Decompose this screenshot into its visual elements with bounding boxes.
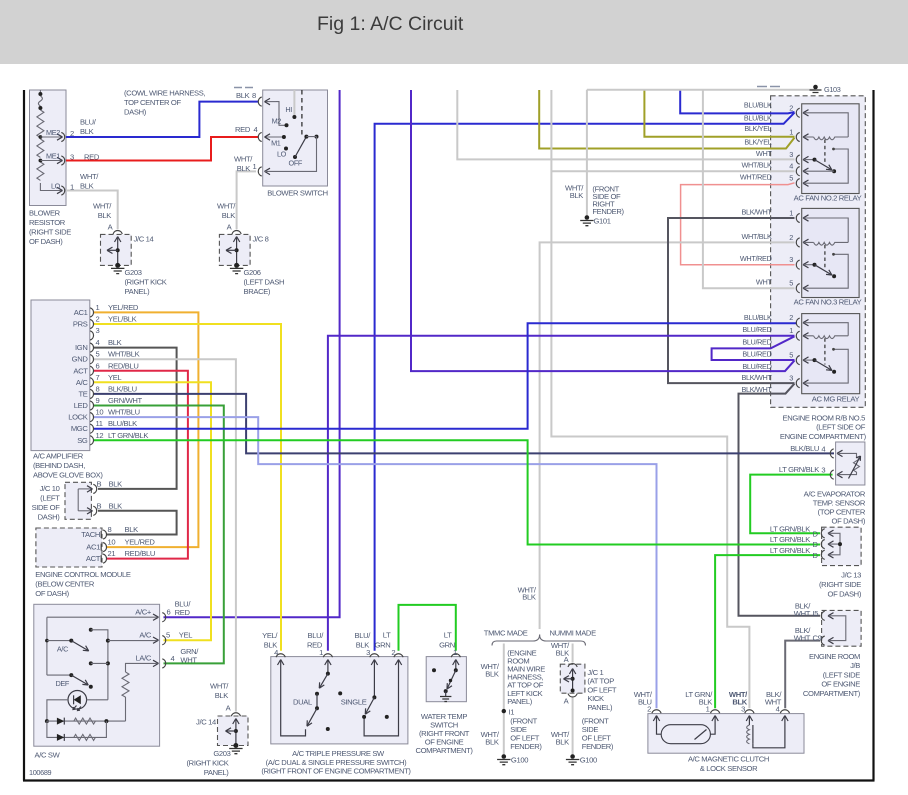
svg-text:YEL: YEL (179, 631, 192, 640)
wire BLU/BLK blower resistor ME2 to blower switch pin 8 (66, 102, 258, 137)
svg-text:PANEL): PANEL) (125, 287, 151, 296)
svg-text:ENGINE ROOM R/B NO.5: ENGINE ROOM R/B NO.5 (783, 413, 866, 422)
J/C 10 internal link (77, 489, 79, 511)
wire BLU/BLK amplifier pin 11 to AC MG relay pin 2 (93, 323, 797, 429)
svg-text:11: 11 (96, 419, 103, 428)
AC fan no.3 relay pin 1 (796, 213, 799, 222)
wire BLU/BLK top feed to AC fan no.2 relay pin 2 (680, 90, 794, 113)
svg-text:OF DASH): OF DASH) (828, 590, 862, 599)
svg-text:TACH: TACH (81, 530, 100, 539)
svg-text:BLU/: BLU/ (355, 631, 372, 640)
J/C 13 pin D1 (821, 529, 824, 538)
engine control module dashed box (36, 528, 102, 567)
svg-text:PANEL): PANEL) (507, 697, 533, 706)
J/C 13 dashed box (822, 527, 862, 565)
A/C amplifier pin 10 LOCK (90, 413, 93, 422)
water temp switch internal ground (440, 697, 451, 702)
svg-text:YEL/: YEL/ (262, 631, 278, 640)
ground G103 clipped at frame top (813, 85, 818, 90)
svg-text:(LEFT: (LEFT (40, 494, 60, 503)
A/C amplifier pin 5 GND (90, 355, 93, 364)
wire WHT/RED relay no.2 pin 5 to relay no.3 pin 3 (681, 183, 795, 265)
svg-text:2: 2 (789, 313, 793, 322)
water temp switch contacts (432, 668, 436, 672)
svg-text:WHT/BLU: WHT/BLU (108, 408, 140, 417)
svg-text:TOP CENTER OF: TOP CENTER OF (124, 98, 181, 107)
svg-text:A/C+: A/C+ (135, 608, 152, 617)
A/C evaporator temp sensor box (836, 442, 865, 485)
J/C 14 lower dashed box (218, 716, 249, 746)
svg-text:OF ENGINE: OF ENGINE (821, 680, 860, 689)
evaporator sensor pin 4 (830, 449, 833, 458)
J/C 1 dashed box (560, 664, 585, 693)
ground G203 lower (229, 749, 242, 754)
svg-text:BLK/WHT: BLK/WHT (742, 385, 773, 394)
svg-text:2: 2 (70, 129, 74, 138)
wire BLU/RED A/C SW pin 6 up to frame top (164, 90, 340, 617)
svg-text:3: 3 (821, 466, 825, 475)
svg-text:LT GRN/BLK: LT GRN/BLK (108, 431, 148, 440)
svg-text:5: 5 (789, 351, 793, 360)
svg-text:BLU/BLK: BLU/BLK (744, 101, 772, 110)
svg-text:BLU/RED: BLU/RED (742, 325, 771, 334)
svg-text:10: 10 (96, 408, 104, 417)
svg-text:YEL/BLK: YEL/BLK (108, 315, 137, 324)
blower switch pin 1 (258, 167, 261, 176)
svg-text:1: 1 (96, 303, 100, 312)
wire BLK J/C 10 B to ECM TACH (98, 511, 177, 535)
svg-text:SINGLE: SINGLE (341, 698, 367, 707)
A/C amplifier pin 6 ACT (90, 366, 93, 375)
wire WHT/BLK ground net top run to G103 (587, 89, 815, 91)
A/C SW internal A/C+ line (47, 617, 158, 675)
svg-text:OF DASH): OF DASH) (35, 589, 69, 598)
blower resistor pin LO (57, 187, 63, 193)
AC fan no.2 relay pin 5 (796, 179, 799, 188)
svg-text:J/C 14: J/C 14 (196, 718, 216, 727)
svg-text:J/C 1: J/C 1 (587, 668, 603, 677)
svg-text:BLK: BLK (80, 127, 94, 136)
svg-text:1: 1 (789, 128, 793, 137)
water temp switch box (426, 657, 466, 702)
svg-text:ABOVE GLOVE BOX): ABOVE GLOVE BOX) (33, 471, 103, 480)
svg-text:(A/C DUAL & SINGLE PRESSURE SW: (A/C DUAL & SINGLE PRESSURE SWITCH) (266, 758, 407, 767)
wire WHT/BLU amplifier pin 10 to clutch pin 2 (93, 417, 657, 708)
svg-text:YEL: YEL (108, 373, 121, 382)
wire WHT/BLK TMMC branch to G100 (503, 644, 505, 756)
svg-text:ACT: ACT (86, 554, 101, 563)
AC fan no.3 relay box (802, 208, 859, 297)
svg-text:LT GRN/BLK: LT GRN/BLK (779, 465, 819, 474)
clutch pin 4 cap (780, 710, 789, 713)
AC MG relay internals (804, 323, 849, 336)
AC fan no.3 relay pin 2 (796, 238, 799, 247)
svg-text:BLU/RED: BLU/RED (742, 362, 771, 371)
svg-text:(RIGHT KICK: (RIGHT KICK (187, 759, 229, 768)
wire WHT/BLK amplifier pin 5 to J/C 14 lower (93, 359, 236, 711)
AC fan no.3 relay pin 5 (796, 284, 799, 293)
svg-text:AC FAN NO.2 RELAY: AC FAN NO.2 RELAY (794, 194, 862, 203)
AC fan no.2 relay internals (804, 113, 849, 137)
svg-text:BLK: BLK (485, 669, 499, 678)
svg-text:WHT/RED: WHT/RED (740, 172, 772, 181)
svg-text:OF DASH): OF DASH) (29, 237, 63, 246)
svg-text:I1: I1 (509, 708, 515, 717)
svg-text:3: 3 (70, 153, 74, 162)
svg-text:OF DASH): OF DASH) (832, 516, 866, 525)
svg-text:BLK: BLK (215, 691, 229, 700)
wire WHT/BLK NUMMI branch to J/C 1 (572, 644, 574, 663)
remnant label above relay pin 2 (757, 86, 780, 88)
wire WHT/BLK relay no.3 pin 2 down to G100 split (540, 242, 795, 629)
svg-text:WHT/: WHT/ (80, 172, 99, 181)
svg-text:LO: LO (51, 182, 61, 191)
A/C amplifier pin 12 SG (90, 436, 93, 445)
AC MG relay pin 2 (796, 318, 799, 327)
svg-text:BLK: BLK (732, 698, 747, 707)
svg-text:WHT: WHT (756, 149, 772, 158)
svg-text:WHT/RED: WHT/RED (740, 254, 772, 263)
svg-text:BLK: BLK (556, 737, 570, 746)
svg-text:LOCK: LOCK (68, 413, 88, 422)
A/C SW LA/C resistor (122, 663, 158, 721)
J/C 14 upper connector (113, 230, 122, 233)
svg-text:LT GRN/BLK: LT GRN/BLK (770, 546, 810, 555)
wire WHT/BLK main vertical to clutch pin 3 (551, 90, 749, 708)
svg-text:BLU/BLK: BLU/BLK (108, 419, 137, 428)
svg-text:A/C: A/C (139, 631, 151, 640)
wire WHT/BLK J/C 1 to G100 (572, 698, 574, 756)
svg-text:1: 1 (789, 326, 793, 335)
svg-text:AC1: AC1 (86, 543, 100, 552)
J/C 13 pin D3 (821, 550, 824, 559)
wire BLK/YEL second feed to AC fan no.2 relay pin 1 (539, 90, 794, 149)
J/C 10 dashed box (65, 482, 91, 519)
clutch pin 2 cap (652, 710, 661, 713)
svg-text:4: 4 (821, 444, 825, 453)
svg-text:NUMMI MADE: NUMMI MADE (550, 629, 597, 638)
svg-text:LA/C: LA/C (136, 654, 152, 663)
svg-text:D: D (813, 529, 819, 538)
AC fan no.2 relay box (802, 104, 859, 194)
J/C 14 lower connector (231, 713, 240, 716)
J/C 10 pin B lower (93, 506, 96, 515)
wire LT GRN pressure switch pin 2 to water temp switch pin 1 (399, 605, 456, 651)
svg-text:5: 5 (166, 631, 170, 640)
ECM pin ACT (103, 554, 106, 563)
svg-text:2: 2 (789, 104, 793, 113)
A/C SW switch DEF (47, 674, 71, 676)
svg-text:1: 1 (789, 209, 793, 218)
svg-text:(LEFT SIDE: (LEFT SIDE (823, 670, 861, 679)
clutch pin 3 cap (745, 710, 754, 713)
svg-text:GRN: GRN (375, 640, 391, 649)
svg-text:12: 12 (96, 431, 104, 440)
svg-text:BLK: BLK (570, 191, 584, 200)
svg-text:G100: G100 (511, 756, 528, 765)
A/C SW box (34, 604, 160, 746)
svg-text:TEMP. SENSOR: TEMP. SENSOR (813, 498, 866, 507)
wire RED blower resistor ME1 to blower switch pin 4 (66, 137, 258, 161)
evaporator sensor pin 3 (830, 470, 833, 479)
svg-text:(COWL WIRE HARNESS,: (COWL WIRE HARNESS, (124, 89, 205, 98)
engine room J/B dashed box (822, 610, 862, 646)
svg-text:3: 3 (366, 648, 370, 657)
A/C SW diode resistor row 2 (47, 721, 107, 737)
wire WHT/BLK blower resistor LO to J/C 14 (66, 191, 118, 230)
svg-text:A/C EVAPORATOR: A/C EVAPORATOR (804, 489, 866, 498)
A/C SW switch A/C (45, 639, 49, 643)
svg-text:TMMC MADE: TMMC MADE (484, 629, 528, 638)
svg-text:10: 10 (108, 538, 116, 547)
node I1 (502, 709, 506, 713)
svg-text:LT: LT (444, 631, 452, 640)
svg-text:7: 7 (96, 373, 100, 382)
blower resistor tap ME2 (40, 136, 62, 138)
svg-text:WHT/: WHT/ (210, 682, 229, 691)
svg-text:IGN: IGN (75, 343, 87, 352)
wire WHT/BLK blower switch pin 1 to J/C 8 (237, 171, 256, 229)
wire BLK/WHT AC MG relay pin 3 to engine room J/B I5 (739, 384, 821, 616)
AC fan no.3 relay pin 3 (796, 260, 799, 269)
svg-text:4: 4 (274, 648, 278, 657)
svg-text:ENGINE COMPARTMENT): ENGINE COMPARTMENT) (780, 432, 867, 441)
svg-text:LT: LT (383, 631, 391, 640)
svg-text:LED: LED (74, 401, 89, 410)
svg-text:(RIGHT FRONT OF ENGINE COMPART: (RIGHT FRONT OF ENGINE COMPARTMENT) (261, 767, 411, 776)
svg-text:BLK: BLK (237, 164, 251, 173)
svg-text:AC MG RELAY: AC MG RELAY (812, 394, 860, 403)
engine room J/B pin C9 (821, 636, 824, 645)
svg-text:2: 2 (647, 705, 651, 714)
clutch oval symbol (661, 725, 710, 744)
J/C 1 connector (568, 664, 577, 667)
svg-text:3: 3 (789, 255, 793, 264)
svg-text:G206: G206 (244, 268, 261, 277)
svg-text:(RIGHT KICK: (RIGHT KICK (125, 278, 167, 287)
ground G101 (585, 215, 590, 220)
svg-text:WHT/BLK: WHT/BLK (742, 161, 772, 170)
svg-text:AC FAN NO.3 RELAY: AC FAN NO.3 RELAY (794, 298, 862, 307)
svg-text:LT GRN/BLK: LT GRN/BLK (770, 524, 810, 533)
svg-text:SIDE OF: SIDE OF (32, 503, 61, 512)
svg-text:AC1: AC1 (74, 308, 88, 317)
svg-text:J/C 10: J/C 10 (40, 484, 60, 493)
svg-text:BLK/BLU: BLK/BLU (108, 384, 137, 393)
pressure switch pin 3 cap (370, 654, 379, 657)
svg-text:PRS: PRS (73, 320, 88, 329)
svg-text:B: B (97, 501, 102, 510)
engine room J/B internal bus (829, 616, 846, 641)
AC MG relay pin 3 (796, 379, 799, 388)
AC fan no.2 relay pin 2 (796, 108, 799, 117)
svg-text:4: 4 (254, 125, 258, 134)
A/C amplifier box (31, 300, 90, 451)
engine room R/B no.5 dashed box (771, 96, 866, 408)
wire YEL/RED amplifier pin 1 to ECM AC1 (93, 312, 198, 547)
svg-text:A/C SW: A/C SW (35, 751, 61, 760)
svg-text:J/C 8: J/C 8 (253, 235, 269, 244)
svg-text:RED/BLU: RED/BLU (125, 549, 155, 558)
J/C 8 connector (232, 230, 241, 233)
svg-text:BLK/BLU: BLK/BLU (790, 444, 819, 453)
wire BLK amplifier pin 4 to J/C 10 B (93, 348, 177, 489)
wire YEL amplifier pin 7 to A/C SW pin 5 (93, 382, 211, 640)
ECM pin TACH (103, 530, 106, 539)
header bar (0, 0, 908, 64)
A/C amplifier pin 11 MGC (90, 424, 93, 433)
svg-text:ENGINE CONTROL MODULE: ENGINE CONTROL MODULE (35, 570, 131, 579)
engine room J/B pin I5 (821, 611, 824, 620)
svg-text:BLK: BLK (80, 182, 94, 191)
svg-text:LT GRN/BLK: LT GRN/BLK (770, 535, 810, 544)
svg-text:LO: LO (277, 150, 287, 159)
AC fan no.3 relay internals (804, 218, 849, 242)
wire YEL/BLK amplifier pin 2 to pressure switch pin 4 (93, 324, 281, 651)
svg-text:I5: I5 (813, 609, 819, 618)
blower switch pin 4 (258, 132, 261, 141)
svg-text:D: D (813, 540, 819, 549)
blower switch pin 8 (258, 97, 261, 106)
svg-text:BLU/: BLU/ (308, 631, 325, 640)
svg-text:3: 3 (741, 705, 745, 714)
svg-text:COMPARTMENT): COMPARTMENT) (415, 746, 473, 755)
svg-text:RED: RED (84, 153, 100, 162)
svg-text:A/C: A/C (57, 645, 68, 654)
svg-text:A/C: A/C (76, 378, 88, 387)
svg-text:BLK/WHT: BLK/WHT (742, 207, 773, 216)
svg-text:1: 1 (253, 162, 257, 171)
svg-text:B: B (97, 479, 102, 488)
blower resistor tap ME1 (40, 160, 62, 162)
J/C 10 pin B upper (93, 484, 96, 493)
svg-text:ME1: ME1 (46, 152, 60, 161)
svg-text:FENDER): FENDER) (592, 207, 624, 216)
svg-text:(RIGHT SIDE: (RIGHT SIDE (819, 580, 861, 589)
svg-text:GRN/WHT: GRN/WHT (108, 396, 143, 405)
svg-text:J/C 14: J/C 14 (134, 235, 154, 244)
lock sensor coil (747, 725, 750, 744)
A/C SW pin 5 A/C (162, 636, 165, 645)
svg-text:FENDER): FENDER) (582, 742, 614, 751)
svg-text:(RIGHT SIDE: (RIGHT SIDE (29, 228, 71, 237)
svg-text:KICK: KICK (587, 694, 604, 703)
svg-text:BLOWER SWITCH: BLOWER SWITCH (267, 189, 327, 198)
svg-text:BLU/BLK: BLU/BLK (744, 113, 772, 122)
J/C 14 upper dashed box (101, 234, 132, 265)
svg-text:RED: RED (235, 125, 251, 134)
ECM pin AC1 (103, 543, 106, 552)
svg-text:J/C 13: J/C 13 (841, 571, 861, 580)
svg-text:1: 1 (453, 648, 457, 657)
AC fan no.2 relay pin 1 (796, 132, 799, 141)
wire BLU/RED AC MG relay pin 5 to pin 1 U-link (712, 336, 795, 360)
svg-text:A/C AMPLIFIER: A/C AMPLIFIER (33, 452, 84, 461)
AC MG relay box (802, 314, 860, 394)
svg-text:WHT/: WHT/ (217, 202, 236, 211)
svg-text:D: D (813, 551, 819, 560)
pressure switch pin 4 cap (276, 654, 285, 657)
AC fan no.2 relay pin 4 (796, 167, 799, 176)
svg-text:(TOP CENTER: (TOP CENTER (818, 507, 866, 516)
svg-text:SG: SG (77, 436, 88, 445)
svg-text:4: 4 (789, 162, 793, 171)
svg-text:M1: M1 (271, 139, 281, 148)
wire LT GRN/BLK J/C 13 D3 to clutch pin 1 (715, 555, 820, 708)
svg-text:A/C TRIPLE PRESSURE SW: A/C TRIPLE PRESSURE SW (292, 749, 385, 758)
svg-text:BRACE): BRACE) (244, 287, 271, 296)
svg-text:OFF: OFF (289, 159, 303, 168)
svg-text:BLK: BLK (236, 91, 250, 100)
svg-text:G103: G103 (824, 85, 841, 94)
wire LT GRN/BLK amplifier pin 12 to J/C 13 D2 (93, 440, 820, 544)
svg-text:8: 8 (96, 384, 100, 393)
svg-text:(LEFT SIDE OF: (LEFT SIDE OF (816, 423, 866, 432)
svg-text:J/B: J/B (850, 661, 860, 670)
A/C amplifier pin 2 PRS (90, 319, 93, 328)
clutch pin 1 cap (711, 710, 720, 713)
svg-text:ENGINE ROOM: ENGINE ROOM (809, 652, 860, 661)
svg-text:BLU/: BLU/ (80, 118, 97, 127)
svg-text:TE: TE (78, 389, 87, 398)
wire WHT blower switch HI feed from top (293, 90, 295, 116)
A/C SW LED (68, 691, 87, 710)
ground G206 (230, 268, 243, 273)
svg-text:2: 2 (391, 648, 395, 657)
svg-text:BLK: BLK (109, 501, 123, 510)
svg-text:YEL/RED: YEL/RED (125, 538, 156, 547)
svg-text:WHT: WHT (794, 634, 811, 643)
svg-text:GND: GND (72, 355, 89, 364)
svg-text:100689: 100689 (29, 768, 52, 777)
svg-text:4: 4 (171, 654, 175, 663)
A/C SW pin 4 LA/C (162, 659, 165, 668)
A/C amplifier pin 3 (90, 331, 93, 340)
pressure switch pin 1 cap (323, 654, 332, 657)
svg-text:1: 1 (70, 183, 74, 192)
svg-text:MGC: MGC (71, 424, 89, 433)
wire BLU/RED pressure switch pin 1 to AC MG relay pin 1 (328, 336, 795, 651)
svg-text:5: 5 (789, 279, 793, 288)
pressure switch pin 2 cap (394, 654, 403, 657)
svg-text:PANEL): PANEL) (204, 768, 230, 777)
svg-text:21: 21 (108, 549, 116, 558)
svg-text:(BEHIND DASH,: (BEHIND DASH, (33, 461, 85, 470)
wire WHT top feed to AC fan no.3 relay pin 5 (703, 90, 795, 288)
J/C 13 internal bus (829, 533, 841, 555)
svg-text:BLK: BLK (108, 338, 122, 347)
svg-text:BLK: BLK (522, 593, 536, 602)
svg-text:DUAL: DUAL (293, 698, 312, 707)
svg-text:COMPARTMENT): COMPARTMENT) (803, 689, 861, 698)
svg-text:YEL/RED: YEL/RED (108, 303, 139, 312)
svg-text:1: 1 (319, 648, 323, 657)
svg-text:WHT/: WHT/ (93, 202, 112, 211)
svg-text:5: 5 (96, 350, 100, 359)
svg-text:DASH): DASH) (38, 513, 61, 522)
svg-text:C9: C9 (813, 634, 822, 643)
ground G203 upper (111, 268, 124, 273)
wire WHT/BLK ground net to AC fan no.2 relay pin 4 (551, 170, 794, 172)
svg-text:Fig 1: A/C Circuit: Fig 1: A/C Circuit (317, 13, 464, 35)
svg-text:1: 1 (706, 705, 710, 714)
wire LT GRN/BLK evaporator sensor pin 3 to J/C 13 D1 (750, 475, 832, 534)
svg-text:3: 3 (96, 326, 100, 335)
svg-text:8: 8 (252, 91, 256, 100)
svg-text:BLU/RED: BLU/RED (742, 350, 771, 359)
wire BLK/WHT relay no.3 pin 1 to AC MG relay pin 3 (668, 218, 795, 383)
evaporator sensor thermistor (838, 453, 860, 474)
